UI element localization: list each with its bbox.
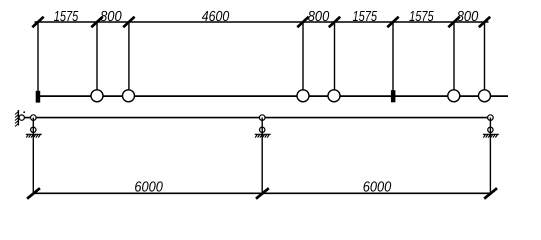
tick T7 — [448, 17, 459, 27]
svg-text:1575: 1575 — [54, 9, 79, 25]
tick T1 — [32, 17, 43, 27]
ground G1 — [26, 134, 42, 137]
hinge H2 — [259, 115, 265, 121]
tick T6 — [387, 17, 398, 27]
svg-text:800: 800 — [308, 9, 330, 25]
wheel W3 — [297, 90, 309, 102]
wall roller circle — [19, 115, 24, 120]
top beam — [40, 95, 508, 97]
support post S2 — [261, 118, 263, 194]
tick U2 — [256, 188, 269, 199]
extension line E3 — [128, 22, 130, 90]
extension line E6 — [392, 22, 394, 91]
svg-text:4600: 4600 — [202, 9, 230, 25]
ground G2 — [255, 134, 271, 137]
tick T5 — [329, 17, 340, 27]
ground G3 — [483, 134, 499, 137]
dimension line D2 (bottom) — [33, 192, 490, 194]
hinge H3 — [488, 115, 494, 121]
dimension line D1 (top chain) — [35, 21, 489, 23]
roller R2 — [260, 127, 265, 132]
wheel W1 — [91, 90, 103, 102]
support post S3 — [489, 118, 491, 194]
wheel W4 — [328, 90, 340, 102]
hinge H1 — [31, 115, 37, 121]
extension line E5 — [334, 22, 336, 90]
svg-text:6000: 6000 — [134, 179, 163, 195]
lower beam — [24, 117, 490, 119]
tick U1 — [27, 188, 40, 199]
extension line E8 — [484, 22, 486, 90]
tick T4 — [297, 17, 308, 27]
svg-text:800: 800 — [100, 9, 122, 25]
extension line E2 — [96, 22, 98, 90]
stop block B1 — [36, 91, 41, 103]
svg-text:1575: 1575 — [409, 9, 434, 25]
wall line — [17, 110, 19, 125]
stop block B2 — [391, 90, 396, 102]
tick T3 — [123, 17, 134, 27]
roller R1 — [31, 127, 36, 132]
extension line E1 — [37, 22, 39, 91]
wall hatch — [15, 112, 18, 127]
tick U3 — [484, 188, 497, 199]
svg-text:800: 800 — [457, 9, 479, 25]
extension line E4 — [302, 22, 304, 90]
roller R3 — [488, 127, 493, 132]
support post S1 — [32, 118, 34, 194]
wheel W6 — [479, 90, 491, 102]
wheel W5 — [448, 90, 460, 102]
speck dot — [23, 111, 25, 113]
tick T2 — [91, 17, 102, 27]
svg-text:6000: 6000 — [363, 179, 392, 195]
wheel W2 — [123, 90, 135, 102]
tick T8 — [479, 17, 490, 27]
svg-text:1575: 1575 — [353, 9, 378, 25]
extension line E7 — [453, 22, 455, 90]
